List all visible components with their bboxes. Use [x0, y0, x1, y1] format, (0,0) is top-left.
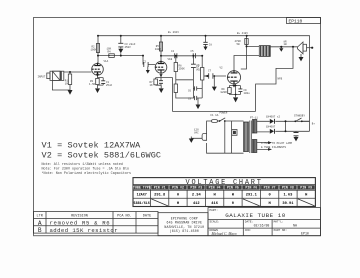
svg-text:PT-11: PT-11 — [250, 117, 258, 120]
svg-text:PART NO:: PART NO: — [274, 229, 287, 232]
svg-text:CKD:: CKD: — [245, 229, 252, 232]
svg-text:820R: 820R — [221, 91, 228, 94]
svg-text:5881/6L6: 5881/6L6 — [134, 201, 150, 206]
svg-text:B+: B+ — [312, 122, 316, 125]
svg-text:PIN #5: PIN #5 — [227, 186, 239, 190]
svg-text:A: A — [38, 220, 42, 227]
svg-text:30.91: 30.91 — [282, 202, 294, 206]
svg-text:NFB: NFB — [278, 78, 283, 81]
svg-text:C9: C9 — [188, 98, 192, 101]
svg-text:PIN #6: PIN #6 — [245, 186, 257, 190]
svg-text:100u: 100u — [244, 92, 251, 95]
svg-text:412: 412 — [193, 202, 200, 206]
svg-text:VOL: VOL — [196, 69, 201, 72]
svg-text:V1A: V1A — [104, 60, 109, 63]
svg-text:Note: All resistors 1/2Watt un: Note: All resistors 1/2Watt unless noted — [42, 162, 123, 167]
svg-text:450V: 450V — [125, 46, 132, 49]
svg-text:B+ 291V: B+ 291V — [168, 31, 179, 34]
svg-text:DATE:: DATE: — [245, 221, 253, 224]
svg-text:1.63: 1.63 — [283, 194, 293, 198]
svg-text:12AX7: 12AX7 — [137, 194, 147, 198]
svg-text:PIN #8: PIN #8 — [282, 186, 294, 190]
svg-text:added 15K resistor: added 15K resistor — [50, 227, 119, 234]
svg-text:2.34: 2.34 — [192, 194, 202, 198]
svg-text:PIN #4: PIN #4 — [209, 186, 221, 190]
svg-text:250K: 250K — [179, 68, 186, 71]
svg-text:PIN #2: PIN #2 — [172, 186, 184, 190]
svg-text:POWER: POWER — [220, 112, 228, 115]
svg-text:MAT'L:: MAT'L: — [274, 220, 284, 224]
svg-text:(615) 871-4500: (615) 871-4500 — [170, 229, 199, 233]
svg-text:INPUT: INPUT — [38, 76, 46, 79]
svg-text:1.5K: 1.5K — [89, 83, 96, 86]
svg-text:H: H — [177, 202, 179, 206]
svg-text:& TUBE FILAMENTS: & TUBE FILAMENTS — [261, 146, 286, 149]
svg-text:6.3VAC TO PILOT LAMP: 6.3VAC TO PILOT LAMP — [261, 142, 293, 145]
svg-text:PIN #1: PIN #1 — [154, 186, 166, 190]
svg-text:PCA NO.: PCA NO. — [117, 214, 132, 218]
svg-text:1K: 1K — [150, 84, 154, 87]
svg-text:1N4007: 1N4007 — [266, 126, 276, 129]
svg-text:PART:: PART: — [210, 209, 218, 212]
svg-text:1N4007 x2: 1N4007 x2 — [266, 116, 280, 119]
svg-text:V1B: V1B — [168, 58, 173, 61]
svg-text:H: H — [232, 194, 234, 198]
svg-text:C4: C4 — [171, 50, 175, 53]
svg-text:EP110: EP110 — [289, 19, 303, 25]
svg-text:0: 0 — [232, 202, 234, 206]
svg-text:C6: C6 — [188, 90, 192, 93]
svg-text:TUBE TYPE: TUBE TYPE — [133, 186, 151, 190]
svg-text:V2: V2 — [220, 67, 224, 70]
svg-text:GALAXIE TUBE 10: GALAXIE TUBE 10 — [225, 212, 286, 219]
svg-text:291.8: 291.8 — [154, 194, 166, 198]
svg-text:H: H — [305, 194, 307, 198]
svg-text:NA: NA — [293, 223, 297, 227]
svg-text:416: 416 — [211, 202, 218, 206]
svg-text:C8: C8 — [209, 43, 213, 46]
svg-text:H: H — [213, 194, 215, 198]
svg-text:5W: 5W — [237, 43, 241, 46]
svg-text:C2: C2 — [143, 61, 147, 64]
svg-text:DATE: DATE — [143, 214, 151, 218]
svg-text:REVISION: REVISION — [71, 214, 88, 218]
svg-text:1W: 1W — [284, 43, 288, 46]
svg-text:C7: C7 — [208, 70, 212, 73]
svg-text:removed R5 & R6: removed R5 & R6 — [50, 219, 111, 226]
svg-text:*Note: Non Polarized electroly: *Note: Non Polarized electrolytic Capaci… — [42, 171, 132, 176]
svg-text:SCALE:: SCALE: — [210, 221, 220, 224]
svg-text:V2 = Sovtek 5881/6L6WGC: V2 = Sovtek 5881/6L6WGC — [42, 151, 162, 161]
svg-text:Note: For 230V operation fuse: Note: For 230V operation fuse = .5A Slo … — [42, 166, 130, 171]
svg-text:0: 0 — [177, 194, 179, 198]
svg-text:F1 1A: F1 1A — [211, 114, 219, 117]
svg-text:LTR: LTR — [37, 214, 44, 218]
svg-text:EP10: EP10 — [301, 232, 309, 236]
svg-text:100K: 100K — [155, 48, 162, 51]
svg-text:C5: C5 — [191, 50, 195, 53]
svg-text:V1 = Sovtek 12AX7WA: V1 = Sovtek 12AX7WA — [42, 140, 142, 150]
svg-text:PIN #7: PIN #7 — [264, 186, 276, 190]
svg-text:100K: 100K — [91, 49, 98, 52]
svg-text:H: H — [268, 202, 270, 206]
svg-text:VAC: VAC — [194, 132, 199, 135]
svg-text:291.1: 291.1 — [246, 194, 258, 198]
svg-text:PIN #9: PIN #9 — [300, 186, 312, 190]
svg-text:STANDBY: STANDBY — [294, 115, 305, 118]
svg-text:25uF: 25uF — [106, 84, 113, 87]
svg-text:1M: 1M — [65, 83, 69, 86]
svg-text:Michael C. Mayo: Michael C. Mayo — [211, 232, 237, 236]
svg-text:10K: 10K — [107, 48, 112, 51]
svg-text:1M: 1M — [196, 66, 200, 69]
svg-text:PIN #3: PIN #3 — [190, 186, 202, 190]
svg-text:B+ 418V: B+ 418V — [237, 32, 248, 35]
svg-text:0: 0 — [268, 194, 270, 198]
svg-text:R4: R4 — [108, 51, 112, 54]
svg-text:B: B — [38, 227, 42, 234]
svg-text:02/16/98: 02/16/98 — [254, 223, 270, 227]
